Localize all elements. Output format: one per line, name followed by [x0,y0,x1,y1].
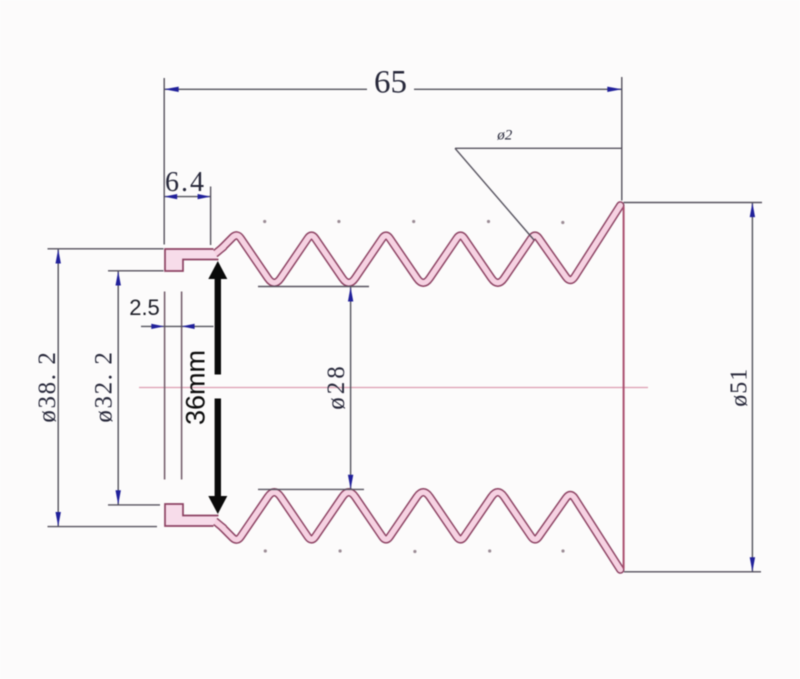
dot top 5 [561,221,564,224]
svg-text:ø32. 2: ø32. 2 [91,350,118,422]
bellows band bottom starter pink [215,521,224,529]
svg-text:2.5: 2.5 [129,295,160,320]
svg-text:ø2: ø2 [496,128,513,144]
dimension 65 line [164,88,367,90]
bellows band bottom starter dark [215,521,224,529]
svg-text:ø38. 2: ø38. 2 [34,350,61,422]
bellows band top outer stroke [222,205,620,282]
dot top 4 [487,220,490,223]
bellows band top starter pink [215,246,224,254]
bellows band bottom outer stroke [222,492,620,569]
extension line left (65/6.4 datum) [163,78,165,245]
36mm arrow top head [208,261,227,279]
dim phi51 line [751,203,753,572]
svg-text:65: 65 [374,65,407,101]
dimension 2.5 line [141,325,214,327]
dim phi28 line [350,287,352,489]
extension line 6.4 right [210,187,212,246]
dim phi38.2 extension bottom [48,526,158,528]
dot bottom 1 [264,549,267,552]
cuff top outline [165,249,219,271]
leader phi2 horizontal [455,147,622,149]
36mm arrow bottom head [208,496,227,514]
svg-text:6.4: 6.4 [165,167,206,198]
dim phi51 extension top [624,202,763,204]
dot top 1 [263,220,266,223]
bellows band bottom pink core [222,492,620,569]
36mm arrow shaft lower [215,399,221,498]
dim phi51 arrows [750,203,755,218]
extension line right face top [621,77,623,201]
bellows band top pink core [222,205,620,282]
dim phi28 extension top [258,286,369,288]
36mm arrow shaft upper [215,277,221,375]
dim phi32.2 extension top [108,270,164,272]
bore wall right [181,292,183,480]
dot bottom 4 [488,549,491,552]
dimension 6.4 line [164,196,210,198]
leader phi2 diagonal [455,148,534,240]
dimension 65 arrows [164,87,179,92]
right end face line [623,207,625,569]
svg-text:36mm: 36mm [181,350,211,425]
dim phi32.2 extension bottom [108,504,160,506]
dim phi28 extension bottom [258,488,364,490]
dim phi32.2 line [117,271,119,505]
dot bottom 3 [413,550,416,553]
bellows band top starter dark [215,246,224,254]
dim phi28 arrows [348,287,353,302]
svg-text:ø51: ø51 [727,368,753,407]
dim phi38.2 line [57,249,59,527]
cuff top fill [165,249,218,271]
dot top 3 [412,220,415,223]
dot top 2 [337,220,340,223]
svg-text:ø28: ø28 [323,363,350,410]
cuff bottom outline [165,504,219,526]
dot bottom 2 [339,549,342,552]
dimension 6.4 arrows [164,194,177,199]
dimension 2.5 arrows [151,324,164,329]
dot bottom 5 [561,549,564,552]
bore wall left [164,292,166,480]
cuff bottom fill [165,504,218,526]
dim phi38.2 arrows [56,249,61,264]
dim phi51 extension bottom [624,571,761,573]
dim phi38.2 extension top [48,248,164,250]
dim phi32.2 arrows [116,271,121,286]
centerline [139,387,648,389]
